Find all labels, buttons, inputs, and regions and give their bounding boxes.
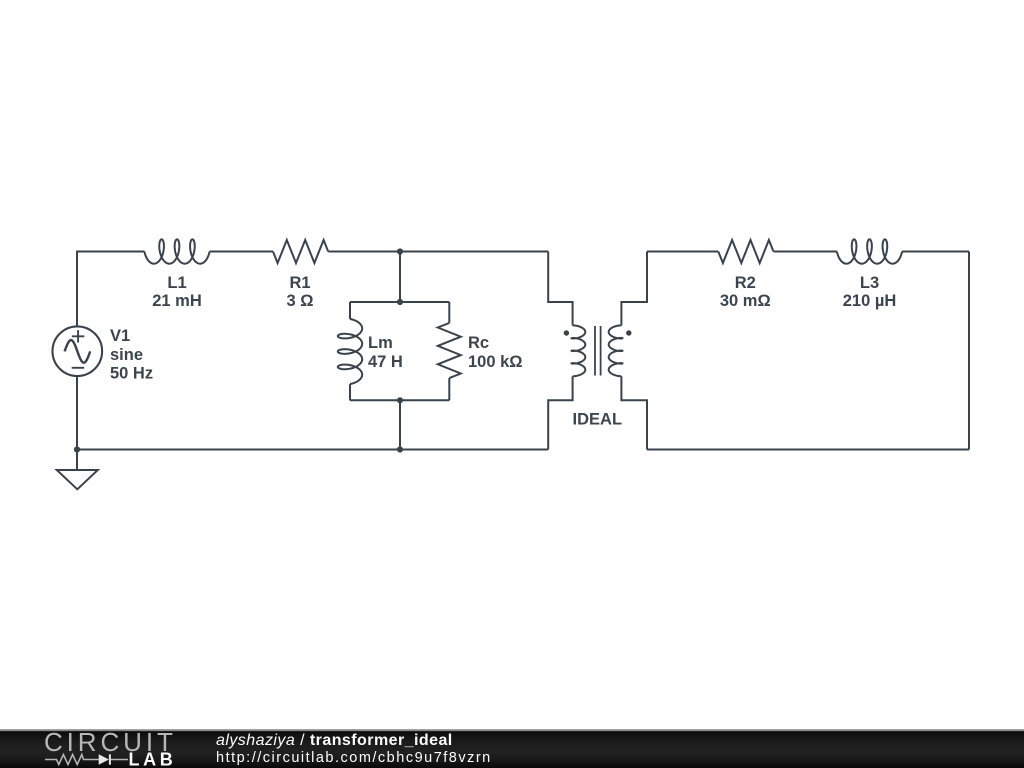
- voltage source V1: [53, 326, 103, 376]
- svg-text:sine: sine: [110, 346, 143, 364]
- svg-text:100 kΩ: 100 kΩ: [468, 353, 523, 371]
- transformer polarity dot right: [626, 330, 631, 335]
- svg-text:210 µH: 210 µH: [843, 292, 897, 310]
- svg-text:R1: R1: [289, 274, 310, 292]
- transformer T1 right leads: [621, 252, 647, 326]
- wire bottom rail left: [77, 449, 548, 451]
- wire parallel box top: [350, 301, 449, 303]
- wire box right wall bottom: [448, 378, 450, 400]
- node E: [74, 446, 80, 452]
- footer bar: [0, 729, 1024, 768]
- inductor L3: [837, 239, 902, 263]
- svg-text:21 mH: 21 mH: [152, 292, 202, 310]
- transformer T1 primary winding: [572, 325, 586, 376]
- wire V1 bottom to bottom rail: [76, 376, 78, 449]
- wire box right wall top: [448, 302, 450, 323]
- wire R1 to transformer left shoulder: [328, 251, 548, 253]
- wire between L1 and R1: [210, 251, 273, 253]
- wire right circuit top: [647, 251, 718, 253]
- inductor L1: [144, 239, 209, 263]
- node A: [397, 248, 403, 254]
- svg-text:Lm: Lm: [368, 334, 393, 352]
- wire box left wall top: [349, 302, 351, 319]
- svg-text:R2: R2: [735, 274, 756, 292]
- inductor Lm: [338, 319, 362, 384]
- transformer polarity dot left: [564, 330, 569, 335]
- svg-text:Rc: Rc: [468, 334, 489, 352]
- CircuitLab logo: [0, 729, 190, 768]
- svg-text:IDEAL: IDEAL: [573, 410, 623, 428]
- wire bottom rail right: [647, 449, 969, 451]
- wire top-left rail: [77, 252, 144, 327]
- transformer T1 secondary winding: [609, 325, 623, 376]
- footer line 2: [216, 750, 492, 766]
- resistor Rc: [438, 323, 461, 378]
- footer line 1: [216, 732, 453, 750]
- wire node column bottom: [399, 400, 401, 449]
- ground: [76, 450, 78, 471]
- resistor R2: [718, 240, 773, 263]
- svg-text:30 mΩ: 30 mΩ: [720, 292, 771, 310]
- svg-text:L3: L3: [860, 274, 879, 292]
- wire right rail: [968, 252, 970, 450]
- node B: [397, 299, 403, 305]
- svg-text:47 H: 47 H: [368, 353, 403, 371]
- wire parallel box bottom: [350, 399, 449, 401]
- node C: [397, 397, 403, 403]
- transformer core: [594, 326, 596, 376]
- transformer T1 left leads: [548, 252, 572, 326]
- svg-text:L1: L1: [167, 274, 186, 292]
- resistor R1: [273, 240, 328, 263]
- svg-text:LAB: LAB: [129, 750, 177, 768]
- svg-text:50 Hz: 50 Hz: [110, 365, 153, 383]
- node D: [397, 446, 403, 452]
- wire box left wall bottom: [349, 384, 351, 400]
- svg-text:3 Ω: 3 Ω: [287, 292, 314, 310]
- svg-text:V1: V1: [110, 327, 130, 345]
- wire node column top: [399, 252, 401, 303]
